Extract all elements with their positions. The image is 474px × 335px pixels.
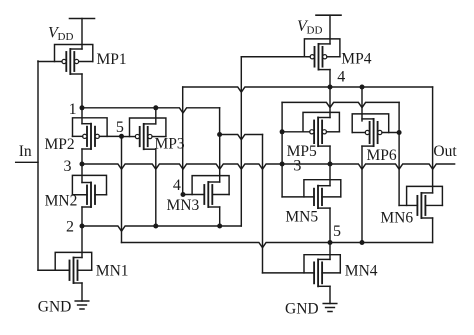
svg-text:MN5: MN5 <box>285 208 318 225</box>
svg-text:MP4: MP4 <box>341 51 371 68</box>
svg-text:3: 3 <box>293 158 301 175</box>
svg-text:4: 4 <box>173 177 181 194</box>
svg-text:5: 5 <box>116 119 124 136</box>
svg-text:5: 5 <box>333 223 341 240</box>
svg-text:MN4: MN4 <box>345 263 378 280</box>
svg-text:3: 3 <box>64 158 72 175</box>
svg-text:2: 2 <box>66 219 74 236</box>
svg-text:DD: DD <box>307 25 323 37</box>
svg-text:1: 1 <box>69 101 77 118</box>
svg-text:MN2: MN2 <box>45 192 78 209</box>
svg-text:MP2: MP2 <box>45 136 75 153</box>
svg-text:GND: GND <box>38 298 72 315</box>
svg-text:MN3: MN3 <box>167 197 200 214</box>
svg-text:MN6: MN6 <box>380 210 413 227</box>
svg-text:Out: Out <box>433 143 457 160</box>
svg-text:MP5: MP5 <box>287 143 317 160</box>
svg-text:MN1: MN1 <box>96 263 129 280</box>
svg-text:GND: GND <box>285 300 319 317</box>
svg-text:MP3: MP3 <box>155 136 185 153</box>
svg-text:DD: DD <box>58 31 74 43</box>
svg-text:In: In <box>19 143 32 160</box>
svg-text:MP6: MP6 <box>367 147 397 164</box>
svg-text:4: 4 <box>337 68 345 85</box>
svg-text:MP1: MP1 <box>97 51 127 68</box>
